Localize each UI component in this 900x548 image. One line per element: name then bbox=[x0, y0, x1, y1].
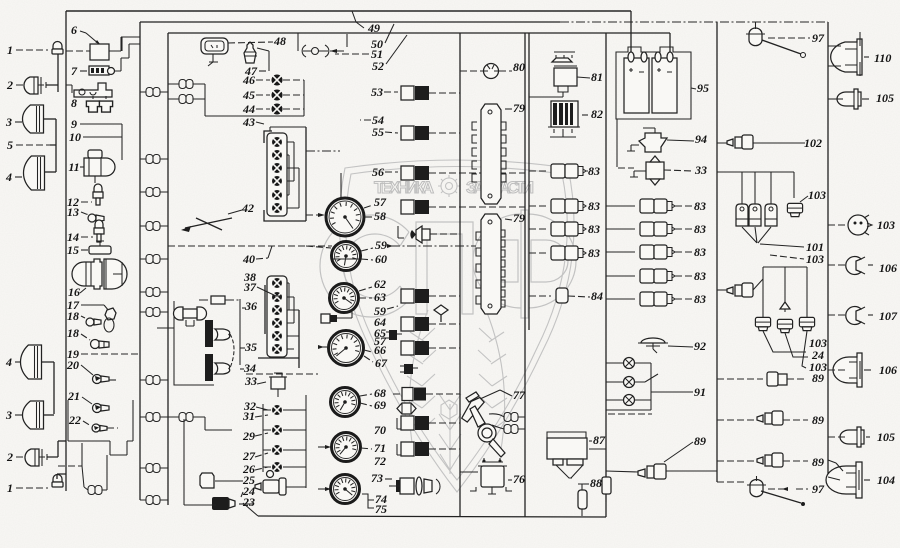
svg-text:56: 56 bbox=[372, 165, 384, 179]
svg-text:106: 106 bbox=[879, 261, 897, 275]
svg-text:37: 37 bbox=[243, 280, 257, 294]
svg-text:11: 11 bbox=[68, 160, 79, 174]
wire bus G bbox=[716, 22, 718, 482]
svg-text:89: 89 bbox=[812, 413, 824, 427]
nut 103 b bbox=[755, 317, 770, 330]
plug 23 body bbox=[263, 480, 279, 493]
svg-text:83: 83 bbox=[694, 199, 706, 213]
small plug 66b bbox=[404, 364, 413, 374]
svg-text:40: 40 bbox=[242, 252, 255, 266]
fuse block 23-32 bbox=[305, 395, 307, 488]
lamp bracket 91 bbox=[650, 363, 652, 410]
fuse low element 1 bbox=[272, 405, 282, 415]
connector 56 body bbox=[401, 166, 414, 180]
horn twin connector 35a bbox=[174, 307, 207, 320]
battery 95 bbox=[616, 47, 691, 119]
fuse 44 symbol bbox=[272, 104, 283, 115]
wire bus 49 top bbox=[66, 10, 631, 12]
svg-text:35: 35 bbox=[244, 340, 257, 354]
101 leads bbox=[742, 227, 771, 243]
wire gauge A top bbox=[340, 173, 342, 198]
connector pair 77a bbox=[504, 413, 518, 422]
lamp 91 b bbox=[624, 377, 635, 388]
svg-text:82: 82 bbox=[591, 107, 603, 121]
wire bus E bbox=[525, 33, 529, 517]
connector 71 body bbox=[401, 442, 414, 456]
fuse strip2 element 4 bbox=[272, 318, 282, 328]
svg-text:79: 79 bbox=[513, 211, 525, 225]
svg-text:83: 83 bbox=[588, 222, 600, 236]
fuse low element 4 bbox=[272, 462, 282, 472]
svg-text:106: 106 bbox=[879, 363, 897, 377]
connector 66 body bbox=[401, 341, 414, 355]
connector pair y312 bbox=[146, 308, 160, 317]
svg-text:70: 70 bbox=[374, 423, 386, 437]
wire right border bbox=[827, 22, 829, 477]
plug 24 body bbox=[212, 497, 229, 510]
fuse low element 3 bbox=[272, 445, 282, 455]
gauge 69 bbox=[331, 388, 360, 417]
svg-text:83: 83 bbox=[694, 222, 706, 236]
plug 73 bbox=[400, 478, 414, 494]
svg-text:10: 10 bbox=[69, 130, 81, 144]
inline connector 50 bbox=[297, 33, 299, 51]
svg-text:27: 27 bbox=[242, 449, 256, 463]
wire bus F bbox=[605, 33, 607, 517]
connector pair x186y417 bbox=[179, 413, 193, 422]
horn 35 bbox=[205, 320, 213, 347]
connector pair y292 bbox=[146, 288, 160, 297]
plug 8b bbox=[99, 101, 112, 112]
watermark shield bbox=[339, 160, 574, 492]
svg-text:4: 4 bbox=[5, 355, 12, 369]
svg-text:13: 13 bbox=[67, 205, 79, 219]
svg-text:22: 22 bbox=[68, 413, 81, 427]
svg-text:7: 7 bbox=[71, 64, 78, 78]
svg-text:103: 103 bbox=[808, 188, 826, 202]
svg-text:18: 18 bbox=[67, 326, 79, 340]
fuse 46 symbol bbox=[272, 75, 283, 86]
svg-text:16: 16 bbox=[68, 285, 80, 299]
lamp 48 bbox=[201, 38, 228, 54]
spark nuts 24 103 bbox=[763, 266, 807, 268]
connector pair y417 bbox=[146, 413, 160, 422]
svg-text:110: 110 bbox=[874, 51, 891, 65]
connector 83 left y206 bbox=[551, 199, 565, 213]
hex 66c bbox=[397, 403, 416, 414]
svg-text:21: 21 bbox=[67, 389, 80, 403]
svg-text:42: 42 bbox=[241, 201, 254, 215]
svg-text:105: 105 bbox=[876, 91, 894, 105]
svg-text:92: 92 bbox=[694, 339, 706, 353]
svg-text:9: 9 bbox=[71, 117, 77, 131]
fuse strip2 element 6 bbox=[272, 344, 282, 354]
svg-text:94: 94 bbox=[695, 132, 707, 146]
wire battery feeds bbox=[631, 11, 670, 60]
plug 101 c bbox=[765, 204, 777, 226]
wires lower-left bbox=[68, 400, 133, 455]
connector pair y500 bbox=[146, 496, 160, 505]
gauge 67 tachometer bbox=[329, 331, 364, 366]
connector pair 1b bbox=[88, 486, 102, 495]
svg-text:15: 15 bbox=[67, 243, 79, 257]
wire bus D bbox=[459, 33, 461, 517]
horn relay box bbox=[174, 301, 214, 385]
svg-text:77: 77 bbox=[513, 388, 526, 402]
watermark letter Ф bbox=[521, 210, 528, 318]
svg-text:95: 95 bbox=[697, 81, 709, 95]
svg-text:2: 2 bbox=[6, 78, 13, 92]
nut 24 bbox=[777, 319, 792, 332]
fuse strip1 element 2 bbox=[272, 150, 282, 160]
fuse strip1 element 5 bbox=[272, 190, 282, 200]
svg-text:52: 52 bbox=[372, 59, 384, 73]
connector 65 body bbox=[401, 317, 414, 331]
svg-text:44: 44 bbox=[242, 102, 255, 116]
capsule on bus F bbox=[602, 477, 611, 494]
fuse strip2 element 5 bbox=[272, 331, 282, 341]
wire junction x205 bbox=[205, 84, 304, 116]
svg-text:83: 83 bbox=[694, 292, 706, 306]
gauge 58 speedometer bbox=[326, 198, 364, 236]
svg-text:62: 62 bbox=[374, 277, 386, 291]
svg-text:67: 67 bbox=[375, 356, 388, 370]
svg-text:97: 97 bbox=[812, 31, 825, 45]
fuse strip1 element 3 bbox=[272, 163, 282, 173]
connector 83 right y276 bbox=[640, 269, 654, 283]
connector 53 body bbox=[401, 86, 414, 100]
headlamp 3 body bbox=[23, 105, 44, 133]
wire 59 dashdot bbox=[391, 245, 476, 247]
svg-text:3: 3 bbox=[5, 115, 12, 129]
svg-text:57: 57 bbox=[374, 334, 387, 348]
svg-text:31: 31 bbox=[242, 409, 255, 423]
svg-text:18: 18 bbox=[67, 309, 79, 323]
connector 83 left y229 bbox=[551, 222, 565, 236]
headlamp 4 body bbox=[24, 156, 45, 190]
connector pair y468 bbox=[146, 464, 160, 473]
svg-text:89: 89 bbox=[694, 434, 706, 448]
nut 103 a bbox=[787, 203, 802, 216]
svg-text:72: 72 bbox=[374, 454, 386, 468]
svg-text:34: 34 bbox=[243, 361, 256, 375]
svg-text:60: 60 bbox=[375, 252, 387, 266]
svg-text:43: 43 bbox=[242, 115, 255, 129]
fuse 45 symbol bbox=[272, 90, 283, 101]
svg-text:2: 2 bbox=[6, 450, 13, 464]
gauge 63 bbox=[330, 284, 359, 313]
connector pair y226 bbox=[146, 222, 160, 231]
svg-text:1: 1 bbox=[7, 43, 13, 57]
svg-text:104: 104 bbox=[877, 473, 895, 487]
svg-text:4: 4 bbox=[5, 170, 12, 184]
connector pair y192 bbox=[146, 188, 160, 197]
connector 55 body bbox=[401, 126, 414, 140]
horn 34 bbox=[205, 354, 213, 381]
svg-text:3: 3 bbox=[5, 408, 12, 422]
svg-text:33: 33 bbox=[694, 163, 707, 177]
svg-text:83: 83 bbox=[694, 245, 706, 259]
svg-text:76: 76 bbox=[513, 472, 525, 486]
svg-text:48: 48 bbox=[273, 34, 286, 48]
svg-text:71: 71 bbox=[374, 441, 386, 455]
fuse strip2 element 1 bbox=[272, 278, 282, 288]
headlamp 3b body bbox=[23, 401, 44, 429]
watermark letter П bbox=[416, 222, 473, 314]
wire bus C bbox=[167, 33, 169, 505]
small plug 59c bbox=[389, 330, 397, 340]
svg-text:53: 53 bbox=[371, 85, 383, 99]
connector 83 right y206 bbox=[640, 199, 654, 213]
connector 57 body bbox=[401, 200, 414, 214]
svg-text:79: 79 bbox=[513, 101, 525, 115]
ignition wires 101 bbox=[717, 171, 794, 173]
svg-text:29: 29 bbox=[242, 429, 255, 443]
connector 89b bbox=[735, 285, 742, 296]
svg-text:14: 14 bbox=[67, 230, 79, 244]
connector pair y159 bbox=[146, 155, 160, 164]
svg-text:20: 20 bbox=[66, 358, 79, 372]
connector pair y92 bbox=[146, 88, 160, 97]
svg-text:49: 49 bbox=[367, 21, 380, 35]
svg-text:81: 81 bbox=[591, 70, 603, 84]
connector 70 body bbox=[401, 416, 414, 430]
watermark letter C bbox=[320, 210, 576, 318]
svg-text:105: 105 bbox=[877, 430, 895, 444]
svg-text:83: 83 bbox=[694, 269, 706, 283]
svg-text:91: 91 bbox=[694, 385, 706, 399]
svg-text:89: 89 bbox=[812, 371, 824, 385]
lamp 91 a bbox=[624, 358, 635, 369]
svg-text:103: 103 bbox=[806, 252, 824, 266]
connector pair x186y99 bbox=[179, 95, 193, 104]
connector 63 body bbox=[401, 289, 414, 303]
wire left border bbox=[65, 11, 67, 491]
svg-text:84: 84 bbox=[591, 289, 603, 303]
connector 68 body bbox=[402, 388, 413, 401]
svg-text:97: 97 bbox=[812, 482, 825, 496]
svg-text:58: 58 bbox=[374, 209, 386, 223]
fuse strip 41 bbox=[264, 127, 306, 221]
wires 8 bbox=[66, 85, 72, 93]
svg-text:33: 33 bbox=[244, 374, 257, 388]
connector 83 a bbox=[551, 164, 565, 178]
svg-text:45: 45 bbox=[242, 88, 255, 102]
svg-text:89: 89 bbox=[812, 455, 824, 469]
connector 83 right y252 bbox=[640, 245, 654, 259]
diamond 84b bbox=[434, 305, 448, 322]
svg-text:8: 8 bbox=[71, 96, 77, 110]
svg-text:46: 46 bbox=[242, 73, 255, 87]
svg-text:103: 103 bbox=[877, 218, 895, 232]
svg-text:36: 36 bbox=[244, 299, 257, 313]
plug 8a bbox=[86, 101, 99, 112]
connector pair 77b bbox=[504, 425, 518, 434]
svg-text:83: 83 bbox=[588, 164, 600, 178]
wire bus 50 bbox=[140, 21, 560, 23]
svg-text:83: 83 bbox=[588, 199, 600, 213]
nut 103 c bbox=[799, 317, 814, 330]
fuse strip1 element 4 bbox=[272, 176, 282, 186]
fuse strip2 element 2 bbox=[272, 292, 282, 302]
svg-text:80: 80 bbox=[513, 60, 525, 74]
plug 101 a bbox=[736, 204, 748, 226]
svg-text:5: 5 bbox=[7, 138, 13, 152]
plug 47 bbox=[244, 42, 256, 63]
gauge 71 bbox=[332, 433, 361, 462]
connector 83 right y229 bbox=[640, 222, 654, 236]
svg-text:88: 88 bbox=[590, 476, 602, 490]
connector 83 right y299 bbox=[640, 292, 654, 306]
connector 83 left y253 bbox=[551, 246, 565, 260]
svg-text:57: 57 bbox=[374, 195, 387, 209]
svg-text:73: 73 bbox=[371, 471, 383, 485]
wire bus 51 bbox=[168, 32, 670, 34]
svg-text:59: 59 bbox=[375, 238, 387, 252]
wire 94 feed bbox=[643, 128, 655, 136]
svg-text:63: 63 bbox=[374, 290, 386, 304]
connector pair y380 bbox=[146, 376, 160, 385]
bracket 36 bbox=[239, 299, 241, 365]
fuse strip2 element 3 bbox=[272, 305, 282, 315]
fuse strip1 element 6 bbox=[272, 203, 282, 213]
lamp 91 c bbox=[624, 395, 635, 406]
svg-text:1: 1 bbox=[7, 481, 13, 495]
svg-text:23: 23 bbox=[242, 495, 255, 509]
plug 101 b bbox=[749, 204, 761, 226]
svg-text:69: 69 bbox=[374, 398, 386, 412]
gauge 60 bbox=[332, 242, 361, 271]
gauge 74 bbox=[331, 475, 360, 504]
bell 61 bbox=[416, 226, 422, 243]
relay 37comp bbox=[211, 296, 225, 304]
wire bottom border bbox=[258, 516, 606, 517]
cup 33 bbox=[271, 377, 285, 389]
svg-text:102: 102 bbox=[804, 136, 822, 150]
fuse strip1 element 1 bbox=[272, 137, 282, 147]
wire bus B bbox=[139, 22, 141, 500]
fuse low element 2 bbox=[272, 425, 282, 435]
svg-text:55: 55 bbox=[372, 125, 384, 139]
wire to strip bbox=[303, 80, 305, 116]
connector pair y259 bbox=[146, 255, 160, 264]
svg-text:6: 6 bbox=[71, 23, 77, 37]
svg-text:87: 87 bbox=[593, 433, 606, 447]
fuse strip 35-38 bbox=[258, 285, 299, 368]
headlamp 4b body bbox=[21, 345, 42, 379]
svg-text:83: 83 bbox=[588, 246, 600, 260]
svg-text:107: 107 bbox=[879, 309, 898, 323]
svg-text:75: 75 bbox=[375, 502, 387, 516]
connector pair x186y84 bbox=[179, 80, 193, 89]
